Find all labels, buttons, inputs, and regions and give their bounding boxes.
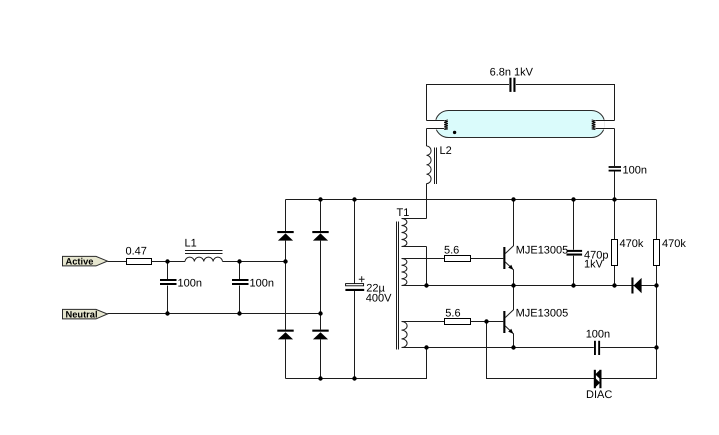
diode D3 (bridge bottom-left): [277, 330, 293, 340]
node: active/C2: [237, 259, 241, 263]
wire: right vertical 656 midpoint down to DIAC row: [601, 286, 657, 379]
svg-text:1kV: 1kV: [584, 259, 604, 271]
svg-text:100n: 100n: [586, 328, 610, 340]
capacitor C5 100n (lamp right to rail): [609, 129, 647, 200]
capacitor C3 22u 400V electrolytic: [345, 200, 392, 379]
svg-text:100n: 100n: [623, 164, 647, 176]
lamp right filament: [592, 120, 615, 130]
svg-text:DIAC: DIAC: [586, 389, 612, 401]
node: neutral/C2: [237, 311, 241, 315]
node: emitter row/right vertical: [654, 345, 658, 349]
svg-text:100n: 100n: [178, 277, 202, 289]
wire: winding1 bottom to midpoint: [426, 247, 428, 286]
wire: bridge left column: [285, 200, 287, 379]
wire: Active row fuse to L1: [152, 261, 186, 263]
capacitor C7 100n (DIAC timing): [586, 328, 610, 355]
transistor Q2 MJE13005: [503, 286, 568, 348]
wire: L2 down to T1 winding 1 (crosses top rail): [426, 184, 428, 219]
svg-text:L1: L1: [185, 237, 197, 249]
wire: Q2 base junction down to DIAC row: [487, 322, 595, 379]
svg-text:6.8n 1kV: 6.8n 1kV: [490, 66, 534, 78]
node: emitter row/T1: [424, 345, 428, 349]
node: emitter row/Q2: [511, 345, 515, 349]
T1 winding 3 (base drive Q2): [402, 322, 445, 348]
node: neutral/C1: [165, 311, 169, 315]
svg-text:5.6: 5.6: [444, 244, 459, 256]
node: rail/470p: [571, 197, 575, 201]
capacitor C6 470p 1kV: [567, 200, 609, 286]
resistor R2 5.6 (Q2 base): [445, 307, 471, 324]
T1 winding 1 (primary): [402, 219, 427, 247]
transistor Q1 MJE13005: [503, 200, 568, 286]
node: Q2 base/DIAC: [484, 319, 488, 323]
inductor L1 (common-mode choke): [185, 237, 223, 261]
node: midpoint/right vertical: [654, 283, 658, 287]
wire: Neutral row tag to bridge right column: [107, 313, 320, 315]
diode D2 (bridge top-right): [312, 231, 328, 241]
node: rail/Q1 collector: [511, 197, 515, 201]
wire: Active row from tag to fuse: [107, 261, 126, 263]
wire: bottom DC rail (left part): [286, 348, 427, 379]
svg-text:5.6: 5.6: [445, 307, 460, 319]
diode D5 (clamp, midpoint row): [631, 278, 641, 294]
transformer T1 core: [397, 207, 410, 350]
net tag Active: [63, 256, 108, 266]
DIAC: [586, 370, 612, 401]
wire: bridge right column: [320, 200, 322, 379]
capacitor C1 100n (left): [160, 262, 202, 314]
wire: R1 to Q1 base: [471, 258, 504, 260]
svg-text:400V: 400V: [366, 293, 392, 305]
node: neutral/bridge: [318, 311, 322, 315]
wire: emitter/negative row with 100n gap: [427, 347, 657, 349]
wire: top DC rail: [286, 199, 657, 201]
resistor R3 470k (left): [612, 200, 644, 286]
node: rail/22u: [352, 197, 356, 201]
svg-text:T1: T1: [397, 207, 410, 219]
node: rail/bridge right: [318, 197, 322, 201]
diode D4 (bridge bottom-right): [312, 330, 328, 340]
svg-text:470k: 470k: [620, 238, 644, 250]
node: active/bridge: [283, 259, 287, 263]
resistor R4 470k (right): [654, 200, 687, 286]
svg-text:0.47: 0.47: [126, 245, 147, 257]
node: rail/100n-470k: [612, 197, 616, 201]
capacitor C4 6.8n 1kV: [490, 66, 534, 92]
wire: R2 to Q2 base: [471, 321, 504, 323]
T1 winding 2 (base drive Q1): [402, 259, 445, 286]
wire: Active row L1 to bridge: [223, 261, 286, 263]
svg-text:100n: 100n: [250, 277, 274, 289]
svg-text:MJE13005: MJE13005: [516, 244, 569, 256]
inductor L2 (ballast choke): [427, 129, 452, 185]
node: bottom rail/bridge right: [318, 376, 322, 380]
resistor R1 5.6 (Q1 base): [444, 244, 471, 261]
capacitor C2 100n (second): [232, 262, 274, 314]
node: midpoint/Q1-Q2: [511, 283, 515, 287]
svg-text:MJE13005: MJE13005: [516, 308, 569, 320]
resistor 0.47 (fuse): [126, 245, 152, 264]
node: midpoint/470p: [571, 283, 575, 287]
svg-text:L2: L2: [440, 145, 452, 157]
wire: midpoint row: [427, 285, 657, 287]
svg-text:Neutral: Neutral: [66, 310, 98, 320]
node: midpoint/T1: [424, 283, 428, 287]
node: bottom rail/22u: [352, 376, 356, 380]
node: midpoint/470k-diode: [612, 283, 616, 287]
svg-text:Active: Active: [66, 256, 94, 266]
svg-text:470k: 470k: [662, 238, 686, 250]
net tag Neutral: [63, 309, 108, 319]
node: active/C1: [165, 259, 169, 263]
fluorescent tube LAMP: [435, 111, 605, 138]
lamp cathode dot: [453, 131, 456, 134]
diode D1 (bridge top-left): [277, 231, 293, 241]
wire: 6.8n top loop: [427, 85, 615, 121]
lamp left filament: [427, 120, 448, 130]
